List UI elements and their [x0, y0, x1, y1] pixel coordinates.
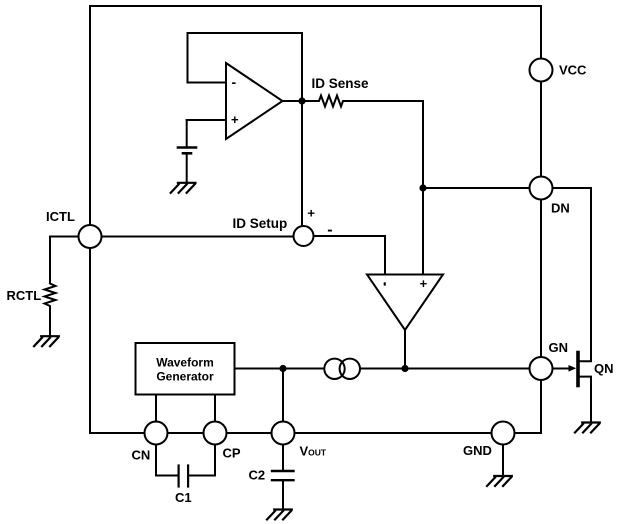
pin GND [492, 422, 515, 445]
capacitor C2 top plate [272, 470, 294, 472]
pin DN [530, 177, 553, 200]
capacitor C1 right plate [187, 466, 189, 487]
wire waveform generator to CP [214, 395, 216, 434]
pin ICTL [79, 225, 102, 248]
wire battery to ground [186, 155, 188, 183]
ground (battery reference) [171, 183, 196, 193]
battery B1 long plate [178, 146, 196, 149]
ground (QN source) [575, 423, 600, 433]
wire battery top [186, 120, 188, 146]
transistor QN body bar [576, 353, 580, 386]
wire resistor to comparator plus input [422, 101, 424, 275]
wire ICTL to RCTL [50, 237, 79, 283]
wire junction to DN pin [423, 187, 541, 189]
wire GND pin to ground [502, 445, 504, 477]
node U2 output junction [401, 365, 408, 372]
wire ICTL row [90, 236, 304, 238]
svg-text:ID Setup: ID Setup [233, 216, 288, 231]
op-amp U1 [226, 63, 283, 139]
svg-text:VOUT: VOUT [300, 444, 327, 459]
svg-text:Waveform: Waveform [156, 356, 214, 370]
wire right bus [540, 6, 542, 433]
wire U2 output [404, 330, 406, 369]
node U1 output junction [298, 97, 305, 104]
battery B1 short plate [183, 152, 191, 155]
svg-text:CN: CN [132, 448, 151, 463]
node DN junction [419, 184, 426, 191]
capacitor C2 bottom lead [282, 481, 284, 509]
op-amp U2 comparator [367, 275, 443, 331]
wire U1 output to ID Setup node [301, 101, 303, 226]
pin VCC [530, 59, 553, 82]
resistor ID Sense [302, 96, 423, 107]
pin CP [204, 422, 227, 445]
capacitor C2 bottom plate [272, 479, 294, 481]
wire U1 inverting input [188, 82, 227, 84]
svg-text:ICTL: ICTL [46, 209, 75, 224]
node VOUT junction [279, 365, 286, 372]
ground (C2) [267, 510, 292, 520]
ground (GND pin) [487, 476, 512, 486]
wire top bus [90, 5, 541, 7]
svg-text:Generator: Generator [156, 370, 214, 384]
svg-text:GN: GN [549, 340, 569, 355]
svg-text:CP: CP [223, 446, 241, 461]
wire ID Setup to comparator minus input [314, 236, 386, 275]
resistor RCTL [45, 284, 56, 337]
pin VOUT [272, 422, 295, 445]
svg-text:+: + [307, 206, 315, 221]
wire DN to QN drain [553, 188, 592, 361]
wire bottom bus [90, 432, 541, 434]
svg-text:-: - [232, 74, 237, 90]
svg-text:GND: GND [463, 443, 492, 458]
arrowhead gate drive [569, 365, 577, 372]
svg-text:C1: C1 [175, 490, 192, 505]
svg-text:RCTL: RCTL [7, 288, 42, 303]
wire QN source to ground [580, 377, 592, 423]
current source I1 [324, 359, 344, 379]
box Waveform Generator [136, 343, 235, 395]
svg-text:QN: QN [594, 361, 614, 376]
svg-text:+: + [231, 112, 239, 127]
wire U1 output [283, 100, 303, 102]
wire left bus [89, 6, 91, 433]
wire waveform generator to CN [155, 395, 157, 434]
wire GN to QN gate [553, 368, 571, 370]
svg-text:C2: C2 [249, 468, 266, 483]
capacitor C1 right lead [190, 445, 216, 476]
pin GN [530, 357, 553, 380]
pin CN [145, 422, 168, 445]
wire U1 non-inverting input [187, 119, 226, 121]
capacitor C1 left plate [178, 466, 180, 487]
svg-text:VCC: VCC [559, 63, 587, 78]
node ID Setup summing circle [294, 226, 314, 246]
svg-text:+: + [420, 276, 428, 291]
capacitor C2 top lead [282, 445, 284, 471]
wire GN row [235, 368, 542, 370]
wire U1 feedback loop [188, 33, 303, 101]
capacitor C1 left lead [156, 445, 177, 476]
svg-text:ID Sense: ID Sense [312, 76, 370, 91]
svg-text:DN: DN [551, 201, 570, 216]
wire VOUT branch [282, 369, 284, 434]
ground (RCTL) [34, 336, 59, 346]
U2 minus label [384, 282, 386, 285]
